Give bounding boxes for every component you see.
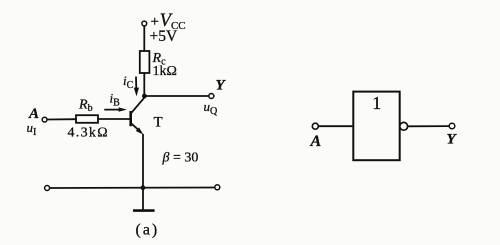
terminal bottom right: [215, 185, 220, 190]
gate input terminal A: [312, 123, 318, 129]
wire collector to output Y: [144, 95, 208, 97]
gate output terminal Y: [449, 123, 455, 129]
node emitter-rail junction: [141, 185, 146, 190]
wire bottom rail: [50, 187, 215, 190]
svg-text:+5V: +5V: [150, 28, 178, 45]
svg-text:Y: Y: [216, 78, 227, 94]
svg-text:4.3kΩ: 4.3kΩ: [68, 126, 109, 141]
terminal bottom left: [45, 186, 50, 191]
wire emitter down: [142, 134, 144, 188]
node collector junction: [142, 94, 147, 99]
svg-text:A: A: [310, 133, 322, 150]
svg-text:uQ: uQ: [204, 99, 219, 117]
svg-text:Rb: Rb: [78, 98, 93, 115]
svg-text:β = 30: β = 30: [162, 151, 199, 166]
wire gate input: [318, 125, 353, 127]
svg-text:iC: iC: [123, 73, 134, 91]
svg-text:T: T: [154, 115, 163, 131]
inversion bubble: [400, 122, 408, 130]
svg-text:uI: uI: [27, 120, 37, 138]
gate box U1: [353, 92, 399, 161]
current arrow iB: [104, 107, 127, 111]
resistor Rb: [76, 115, 98, 123]
wire gate output: [408, 125, 450, 127]
svg-text:1: 1: [372, 93, 381, 113]
ground: [133, 188, 155, 211]
transistor T: [131, 97, 145, 134]
+Vcc supply terminal: [142, 21, 147, 26]
resistor Rc: [140, 51, 150, 73]
input terminal A: [42, 117, 47, 122]
svg-text:(a): (a): [136, 222, 160, 239]
wire Rb to base: [98, 118, 131, 120]
svg-text:iB: iB: [110, 91, 121, 109]
current arrow iC: [134, 77, 139, 97]
svg-text:1kΩ: 1kΩ: [153, 64, 177, 79]
output terminal Y: [209, 94, 214, 99]
wire A to Rb: [47, 118, 76, 120]
wire Rc to collector node: [143, 73, 145, 96]
wire supply to Rc: [143, 26, 145, 51]
svg-text:Y: Y: [447, 132, 458, 148]
